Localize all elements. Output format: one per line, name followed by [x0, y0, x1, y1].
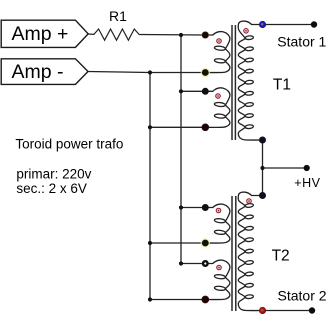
junction: [179, 205, 183, 209]
svg-text:Stator 2: Stator 2: [278, 287, 327, 303]
polarity mark: [216, 208, 221, 213]
node Stator2 end: [309, 307, 315, 313]
branch wire T1B top: [181, 90, 205, 92]
T2 primary winding C: [205, 204, 230, 243]
junction: [179, 261, 183, 265]
terminal dot T2-C bottom yellow halo: [201, 238, 210, 247]
svg-text:Amp +: Amp +: [12, 23, 69, 45]
terminal dot T1-A top: [201, 31, 209, 39]
polarity mark: [244, 29, 249, 34]
terminal dot T2-D top white center: [202, 260, 209, 267]
node +HV end: [304, 165, 310, 171]
junction: [260, 166, 264, 170]
T1 primary winding B: [205, 88, 230, 127]
node T1 sec bottom: [259, 137, 266, 144]
polarity mark: [216, 94, 221, 99]
left bus wire: [149, 73, 151, 300]
node Stator1 blue terminal: [259, 21, 266, 28]
junction: [179, 89, 183, 93]
T2 core: [232, 196, 236, 311]
node Stator2 red terminal: [259, 307, 266, 314]
terminal dot T2-D bottom dark red: [202, 296, 209, 303]
svg-text:Toroid power trafo: Toroid power trafo: [15, 136, 123, 151]
node T2 sec top: [259, 192, 266, 199]
wire Stator 1: [263, 24, 315, 26]
Amp - flag: [1, 59, 88, 85]
T1 secondary: [238, 21, 262, 140]
junction: [148, 125, 152, 129]
svg-text:+HV: +HV: [294, 176, 320, 190]
branch wire T2C top: [181, 207, 205, 209]
branch wire T2D top: [181, 263, 205, 265]
wire +HV: [263, 167, 307, 169]
wire Stator 2: [263, 310, 313, 312]
branch wire T1B bottom: [150, 126, 205, 128]
terminal dot T1-A bottom yellow halo: [201, 68, 210, 77]
svg-text:Amp -: Amp -: [12, 61, 64, 83]
junction: [148, 70, 152, 74]
svg-text:T1: T1: [273, 76, 291, 93]
wire T1sec to T2sec: [262, 140, 264, 196]
junction: [179, 33, 183, 37]
node Stator1 end: [311, 21, 317, 27]
polarity mark: [217, 39, 222, 44]
polarity mark: [217, 265, 222, 270]
T1 core: [232, 25, 235, 140]
svg-text:primar: 220v: primar: 220v: [16, 166, 91, 181]
terminal dot T1-B top: [202, 88, 209, 95]
right bus wire: [180, 35, 182, 264]
svg-text:Stator 1: Stator 1: [277, 33, 326, 49]
wire Amp- to T1: [88, 72, 205, 73]
branch wire T2C bottom: [150, 242, 205, 244]
Amp + flag: [1, 20, 88, 47]
resistor R1: [88, 29, 139, 40]
terminal dot T2-C top: [202, 204, 209, 211]
T2 secondary: [238, 192, 262, 310]
svg-text:T2: T2: [272, 248, 290, 265]
terminal dot T1-B bottom dark red: [202, 124, 209, 131]
svg-text:R1: R1: [109, 8, 127, 24]
junction: [148, 297, 152, 301]
T2 primary winding D: [205, 260, 230, 299]
junction: [148, 241, 152, 245]
T1 primary winding A: [205, 32, 230, 73]
polarity mark: [247, 199, 252, 204]
svg-text:sec.: 2 x 6V: sec.: 2 x 6V: [16, 181, 87, 196]
branch wire T2D bottom: [150, 299, 205, 301]
wire R1 to T1: [139, 34, 205, 37]
